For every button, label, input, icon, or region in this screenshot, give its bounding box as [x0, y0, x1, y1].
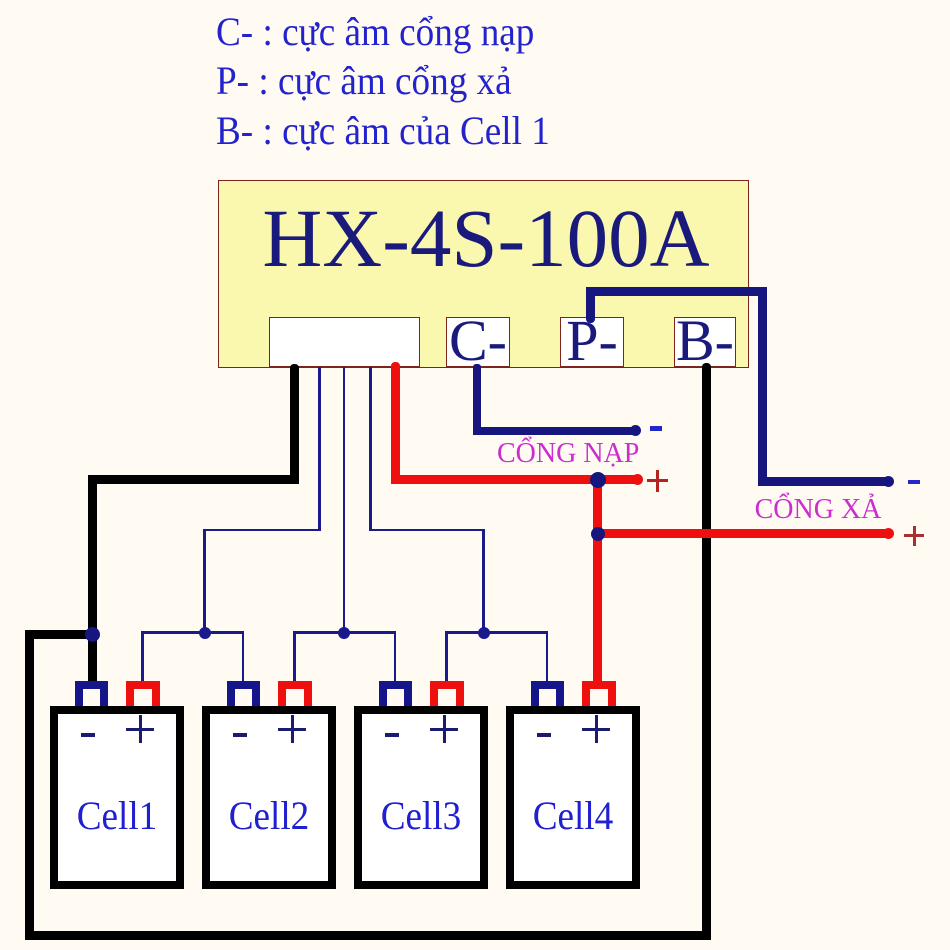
wire sense pin2 to Cell1+/Cell2- (thin navy): [318, 366, 321, 531]
terminal Cell3 minus: [379, 681, 412, 706]
junction CỔNG XẢ plus node: [591, 527, 605, 541]
label CỔNG NẠP plus mark: [647, 479, 668, 482]
pad C-: [446, 317, 510, 367]
terminal Cell2 minus: [227, 681, 260, 706]
terminal Cell2 plus: [278, 681, 312, 706]
wire C- pin nub: [473, 364, 481, 369]
terminal Cell1 minus: [75, 681, 108, 706]
terminal Cell4 plus: [582, 681, 616, 706]
terminal Cell3 plus: [430, 681, 464, 706]
wire P- nub into pad: [586, 317, 595, 323]
wire B- / battery pack loop (thick black): [702, 366, 711, 936]
wire P- to CỔNG XẢ minus (thick navy): [586, 287, 595, 321]
wire pin nubs over connector: [290, 364, 299, 369]
wire connector red pin to CỔNG NẠP plus (thick red): [391, 362, 400, 480]
label CỔNG XẢ: [754, 496, 882, 524]
battery Cell1: [50, 706, 184, 889]
balance connector (white box on module): [269, 317, 420, 367]
label CỔNG XẢ plus mark: [904, 534, 924, 537]
wire sense pin4 to Cell3+/Cell4- (thin navy): [369, 366, 372, 531]
battery Cell3: [354, 706, 488, 889]
terminal Cell1 plus: [126, 681, 160, 706]
junction sense node 1: [199, 627, 211, 639]
terminal Cell4 minus: [531, 681, 564, 706]
pad B-: [674, 317, 736, 367]
junction sense node 3: [478, 627, 490, 639]
wire B- pin nub: [702, 363, 711, 368]
wire sense pin3 to Cell2+/Cell3- (thin navy): [343, 366, 346, 633]
label CỔNG NẠP minus mark: [650, 426, 662, 431]
junction CỔNG NẠP plus node: [590, 472, 606, 488]
wire connector pin1 to Cell1 minus (thick black): [290, 366, 299, 484]
battery Cell2: [202, 706, 336, 889]
wire CỔNG NẠP plus to CỔNG XẢ plus to Cell4 plus (thick red): [593, 479, 602, 687]
label CỔNG XẢ minus mark: [908, 480, 920, 484]
BMS module HX-4S-100A (body): [218, 180, 749, 368]
wire C- to CỔNG NẠP minus (thick navy): [473, 366, 481, 431]
pad P-: [560, 317, 624, 367]
value label HX-4S-100A: [262, 197, 710, 280]
battery Cell4: [506, 706, 640, 889]
node legend C- : cực âm cổng nạp: [216, 7, 550, 156]
label CỔNG NẠP: [497, 440, 639, 468]
junction sense node 2: [338, 627, 350, 639]
junction pack negative node: [85, 627, 100, 642]
